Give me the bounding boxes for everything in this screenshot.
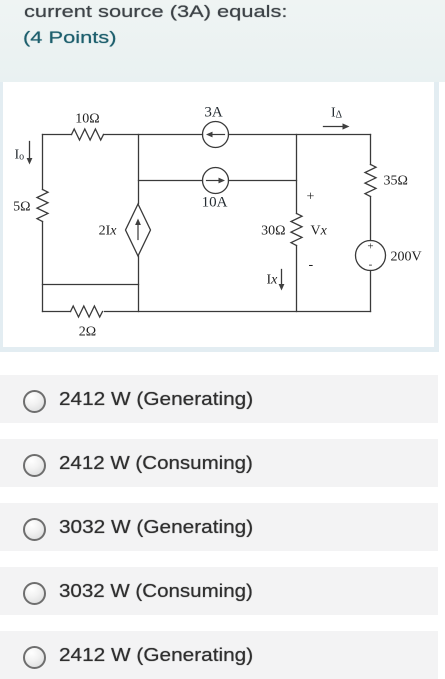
dependent source 2Ix diamond [126, 204, 151, 256]
label 5ohm [13, 200, 30, 215]
label plus Vx [307, 190, 315, 205]
resistor R 10ohm [72, 129, 104, 140]
center rail lower [138, 256, 140, 312]
current source I2 10A [203, 168, 229, 194]
bottom wire left [43, 311, 71, 313]
label Io [15, 148, 25, 163]
svg-text:5Ω: 5Ω [13, 200, 30, 215]
svg-text:2Ix: 2Ix [99, 224, 118, 239]
svg-text:Io: Io [15, 148, 25, 163]
label 200V [391, 250, 422, 265]
label 30ohm [261, 224, 285, 239]
mid-right rail lower [296, 246, 298, 312]
label 2ohm [79, 325, 96, 340]
arrow Ix [279, 270, 285, 291]
resistor R 35ohm [365, 165, 376, 197]
inner bottom wire [43, 284, 139, 286]
svg-text:-: - [369, 259, 373, 271]
label 3A [204, 105, 223, 121]
wire mid right [229, 180, 297, 182]
current source I1 3A [203, 122, 229, 148]
svg-text:200V: 200V [391, 250, 422, 265]
resistor R 2ohm [71, 306, 103, 317]
label 35ohm [384, 174, 408, 189]
voltage source V1 200V [356, 241, 386, 271]
resistor R 30ohm [291, 214, 302, 246]
right rail upper [370, 135, 372, 165]
label 10ohm [75, 112, 99, 127]
svg-text:2Ω: 2Ω [79, 325, 96, 340]
label Vx [311, 224, 328, 239]
svg-text:10Ω: 10Ω [75, 112, 99, 127]
label I-delta [331, 106, 343, 121]
label plus in source [367, 241, 373, 253]
label Ix [267, 273, 279, 288]
label minus in source [369, 259, 373, 271]
label minus Vx [309, 258, 314, 273]
wire top middle [104, 134, 203, 136]
resistor R 5ohm [37, 190, 48, 222]
svg-text:Vx: Vx [311, 224, 328, 239]
svg-text:+: + [367, 241, 373, 253]
bottom wire right [105, 311, 371, 313]
label 2Ix [99, 224, 118, 239]
mid-right rail 30ohm branch: upper [296, 135, 298, 214]
right rail lower [370, 271, 372, 312]
svg-text:Ix: Ix [267, 273, 279, 288]
wire top left [43, 134, 72, 136]
wire mid from center rail [139, 180, 203, 182]
svg-text:-: - [309, 258, 314, 273]
center rail upper [138, 135, 140, 204]
svg-text:+: + [307, 190, 315, 205]
wire top right [229, 134, 371, 136]
label 10A [202, 195, 228, 211]
right rail middle [370, 197, 372, 241]
arrow Io [27, 142, 33, 165]
arrow I-delta [324, 123, 350, 129]
svg-text:10A: 10A [202, 195, 228, 211]
svg-text:3A: 3A [204, 105, 223, 121]
left rail upper [42, 135, 44, 190]
svg-text:35Ω: 35Ω [384, 174, 408, 189]
svg-text:30Ω: 30Ω [261, 224, 285, 239]
svg-text:IΔ: IΔ [331, 106, 343, 121]
left rail lower [42, 222, 44, 312]
